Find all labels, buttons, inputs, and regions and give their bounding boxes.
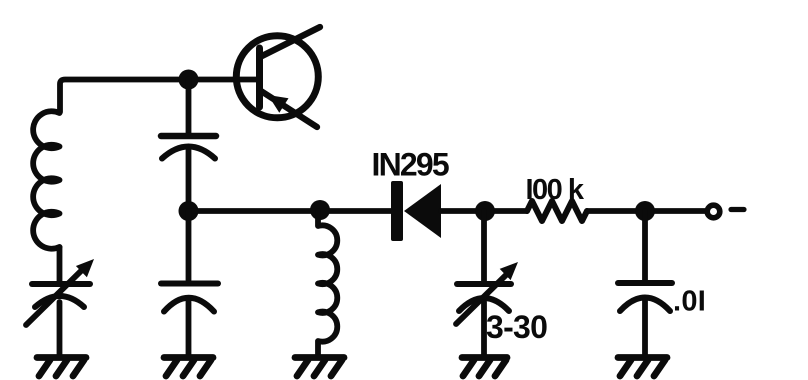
variable capacitor C1 top plate bbox=[32, 281, 90, 287]
node C (L2 tap node) bbox=[310, 200, 330, 220]
node D bbox=[475, 201, 495, 221]
ground G1 bbox=[37, 358, 86, 377]
inductor L1 (antenna coil) bbox=[33, 111, 59, 248]
wire C5 to ground bbox=[642, 300, 648, 355]
svg-text:.0I: .0I bbox=[673, 286, 706, 318]
transistor Q1 emitter arrow (PNP) bbox=[268, 95, 289, 113]
node E bbox=[635, 201, 655, 221]
wire C3 to ground bbox=[186, 300, 192, 355]
wire top rail from coil to transistor base bbox=[60, 80, 258, 113]
ground G2 bbox=[164, 358, 213, 377]
ground G4 bbox=[462, 358, 507, 377]
svg-text:I00 k: I00 k bbox=[526, 174, 585, 206]
wire resistor to node E bbox=[587, 208, 705, 214]
capacitor C3 top plate bbox=[161, 281, 218, 287]
capacitor C3 curved plate bbox=[164, 298, 214, 312]
ground G3 under L2 bbox=[295, 358, 344, 377]
transistor Q1 body circle bbox=[236, 36, 318, 118]
variable capacitor C4 top plate bbox=[457, 281, 511, 287]
resistor R1 zigzag bbox=[527, 201, 587, 221]
output terminal bbox=[707, 205, 720, 218]
wire coil to variable capacitor C1 bbox=[57, 247, 63, 281]
wire node B down to capacitor C3 bbox=[186, 211, 192, 280]
wire C4 to ground bbox=[481, 302, 487, 355]
svg-text:IN295: IN295 bbox=[372, 147, 449, 183]
wire C2 to node B bbox=[186, 147, 192, 211]
ground G5 bbox=[618, 358, 667, 377]
svg-text:3-30: 3-30 bbox=[486, 309, 547, 345]
wire node E down to capacitor C5 bbox=[642, 211, 648, 280]
diode D1 anode triangle bbox=[404, 184, 441, 238]
transistor Q1 emitter bbox=[261, 91, 317, 127]
wire rail node B to diode bbox=[189, 208, 392, 214]
variable capacitor C1 curved plate bbox=[35, 296, 84, 307]
node A (base node dot) bbox=[179, 70, 199, 90]
wire node A down to capacitor C2 bbox=[186, 80, 192, 134]
capacitor C5 curved plate bbox=[620, 298, 670, 312]
capacitor C2 curved plate bbox=[162, 147, 215, 159]
node B (detector rail node) bbox=[179, 201, 199, 221]
wire diode to node D bbox=[441, 208, 527, 214]
capacitor C2 top plate bbox=[161, 133, 216, 140]
diode D1 cathode bar bbox=[391, 181, 403, 241]
variable capacitor C1 arrow bbox=[26, 270, 82, 325]
transistor Q1 base bar bbox=[256, 48, 263, 107]
variable capacitor C4 curved plate bbox=[459, 298, 509, 311]
variable capacitor C4 arrow bbox=[456, 275, 506, 324]
wire node D down to variable capacitor C4 bbox=[481, 211, 487, 281]
transistor Q1 collector bbox=[260, 27, 320, 57]
wire C1 to ground bbox=[57, 302, 63, 355]
minus sign bbox=[731, 207, 744, 212]
inductor L2 bbox=[318, 211, 337, 356]
capacitor C5 top plate bbox=[618, 280, 672, 286]
